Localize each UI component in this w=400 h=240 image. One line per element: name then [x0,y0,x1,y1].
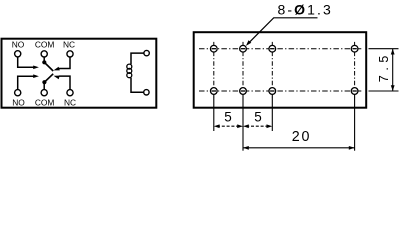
movable arm top (diagonal) [45,63,54,72]
pin circle NC bottom [67,90,73,96]
wire NO top arm [18,57,34,67]
pin circle COM top [41,51,47,57]
leader line for hole callout [248,18,318,44]
coil L1 loops [127,64,132,69]
coil wiring [131,53,144,92]
arrowhead NO top [33,66,39,70]
wire COM top stem [43,57,45,61]
pin circle NC top [67,51,73,57]
svg-text:NC: NC [64,98,76,108]
wire NO bottom arm [18,76,34,89]
coil terminal circle top [144,50,149,55]
svg-text:5: 5 [224,109,232,124]
arrowhead NC bottom [54,76,60,80]
wire COM bottom stem [43,84,45,90]
extension line right bottom [369,90,399,92]
hole 2 bottom [240,88,247,95]
dimension line 20 [243,147,355,149]
pin circle NO top [15,51,21,57]
centerline bottom row [199,90,362,92]
hole 1 bottom [210,88,217,95]
svg-text:NO: NO [12,40,25,50]
svg-text:7.5: 7.5 [377,51,391,82]
extension line col2 [242,95,244,151]
coil terminal circle bottom [144,90,149,95]
arrowhead NC top [54,67,60,71]
hole 4 top [351,45,358,52]
svg-text:8-Ø1.3: 8-Ø1.3 [278,1,333,17]
dimension line 5 (left) [217,125,240,127]
hole 3 bottom [269,88,276,95]
hole 1 top [210,45,217,52]
hole 2 top [240,45,247,52]
svg-text:NC: NC [63,40,75,50]
centerline col 1 [213,42,215,97]
extension line col3 [271,95,273,131]
PCB footprint outline [194,32,367,108]
wire NC top arm [59,57,70,69]
extension line col1 [213,95,215,131]
pin circle COM bottom [41,90,47,96]
svg-text:COM: COM [35,40,55,50]
svg-text:COM: COM [35,98,55,108]
pivot dot top [42,60,46,64]
dimension line 5 (right) [246,125,269,127]
centerline top row [199,48,362,50]
leader arrowhead [246,40,251,46]
svg-text:20: 20 [292,129,312,145]
pivot dot bottom [42,80,46,84]
wire NC bottom arm [59,76,70,90]
centerline col 3 [271,42,273,97]
arrowhead NO bottom [33,74,39,78]
extension line right top [369,48,399,50]
dimension line 7.5 [392,49,394,91]
hole 3 top [269,45,276,52]
centerline col 4 [354,42,356,97]
relay outline box (schematic) [2,39,157,108]
centerline col 2 [242,42,244,97]
svg-text:5: 5 [254,109,262,124]
hole 4 bottom [351,88,358,95]
movable arm bottom (diagonal) [45,74,54,82]
svg-text:NO: NO [12,98,25,108]
extension line col4 [354,95,356,151]
pin circle NO bottom [15,90,21,96]
